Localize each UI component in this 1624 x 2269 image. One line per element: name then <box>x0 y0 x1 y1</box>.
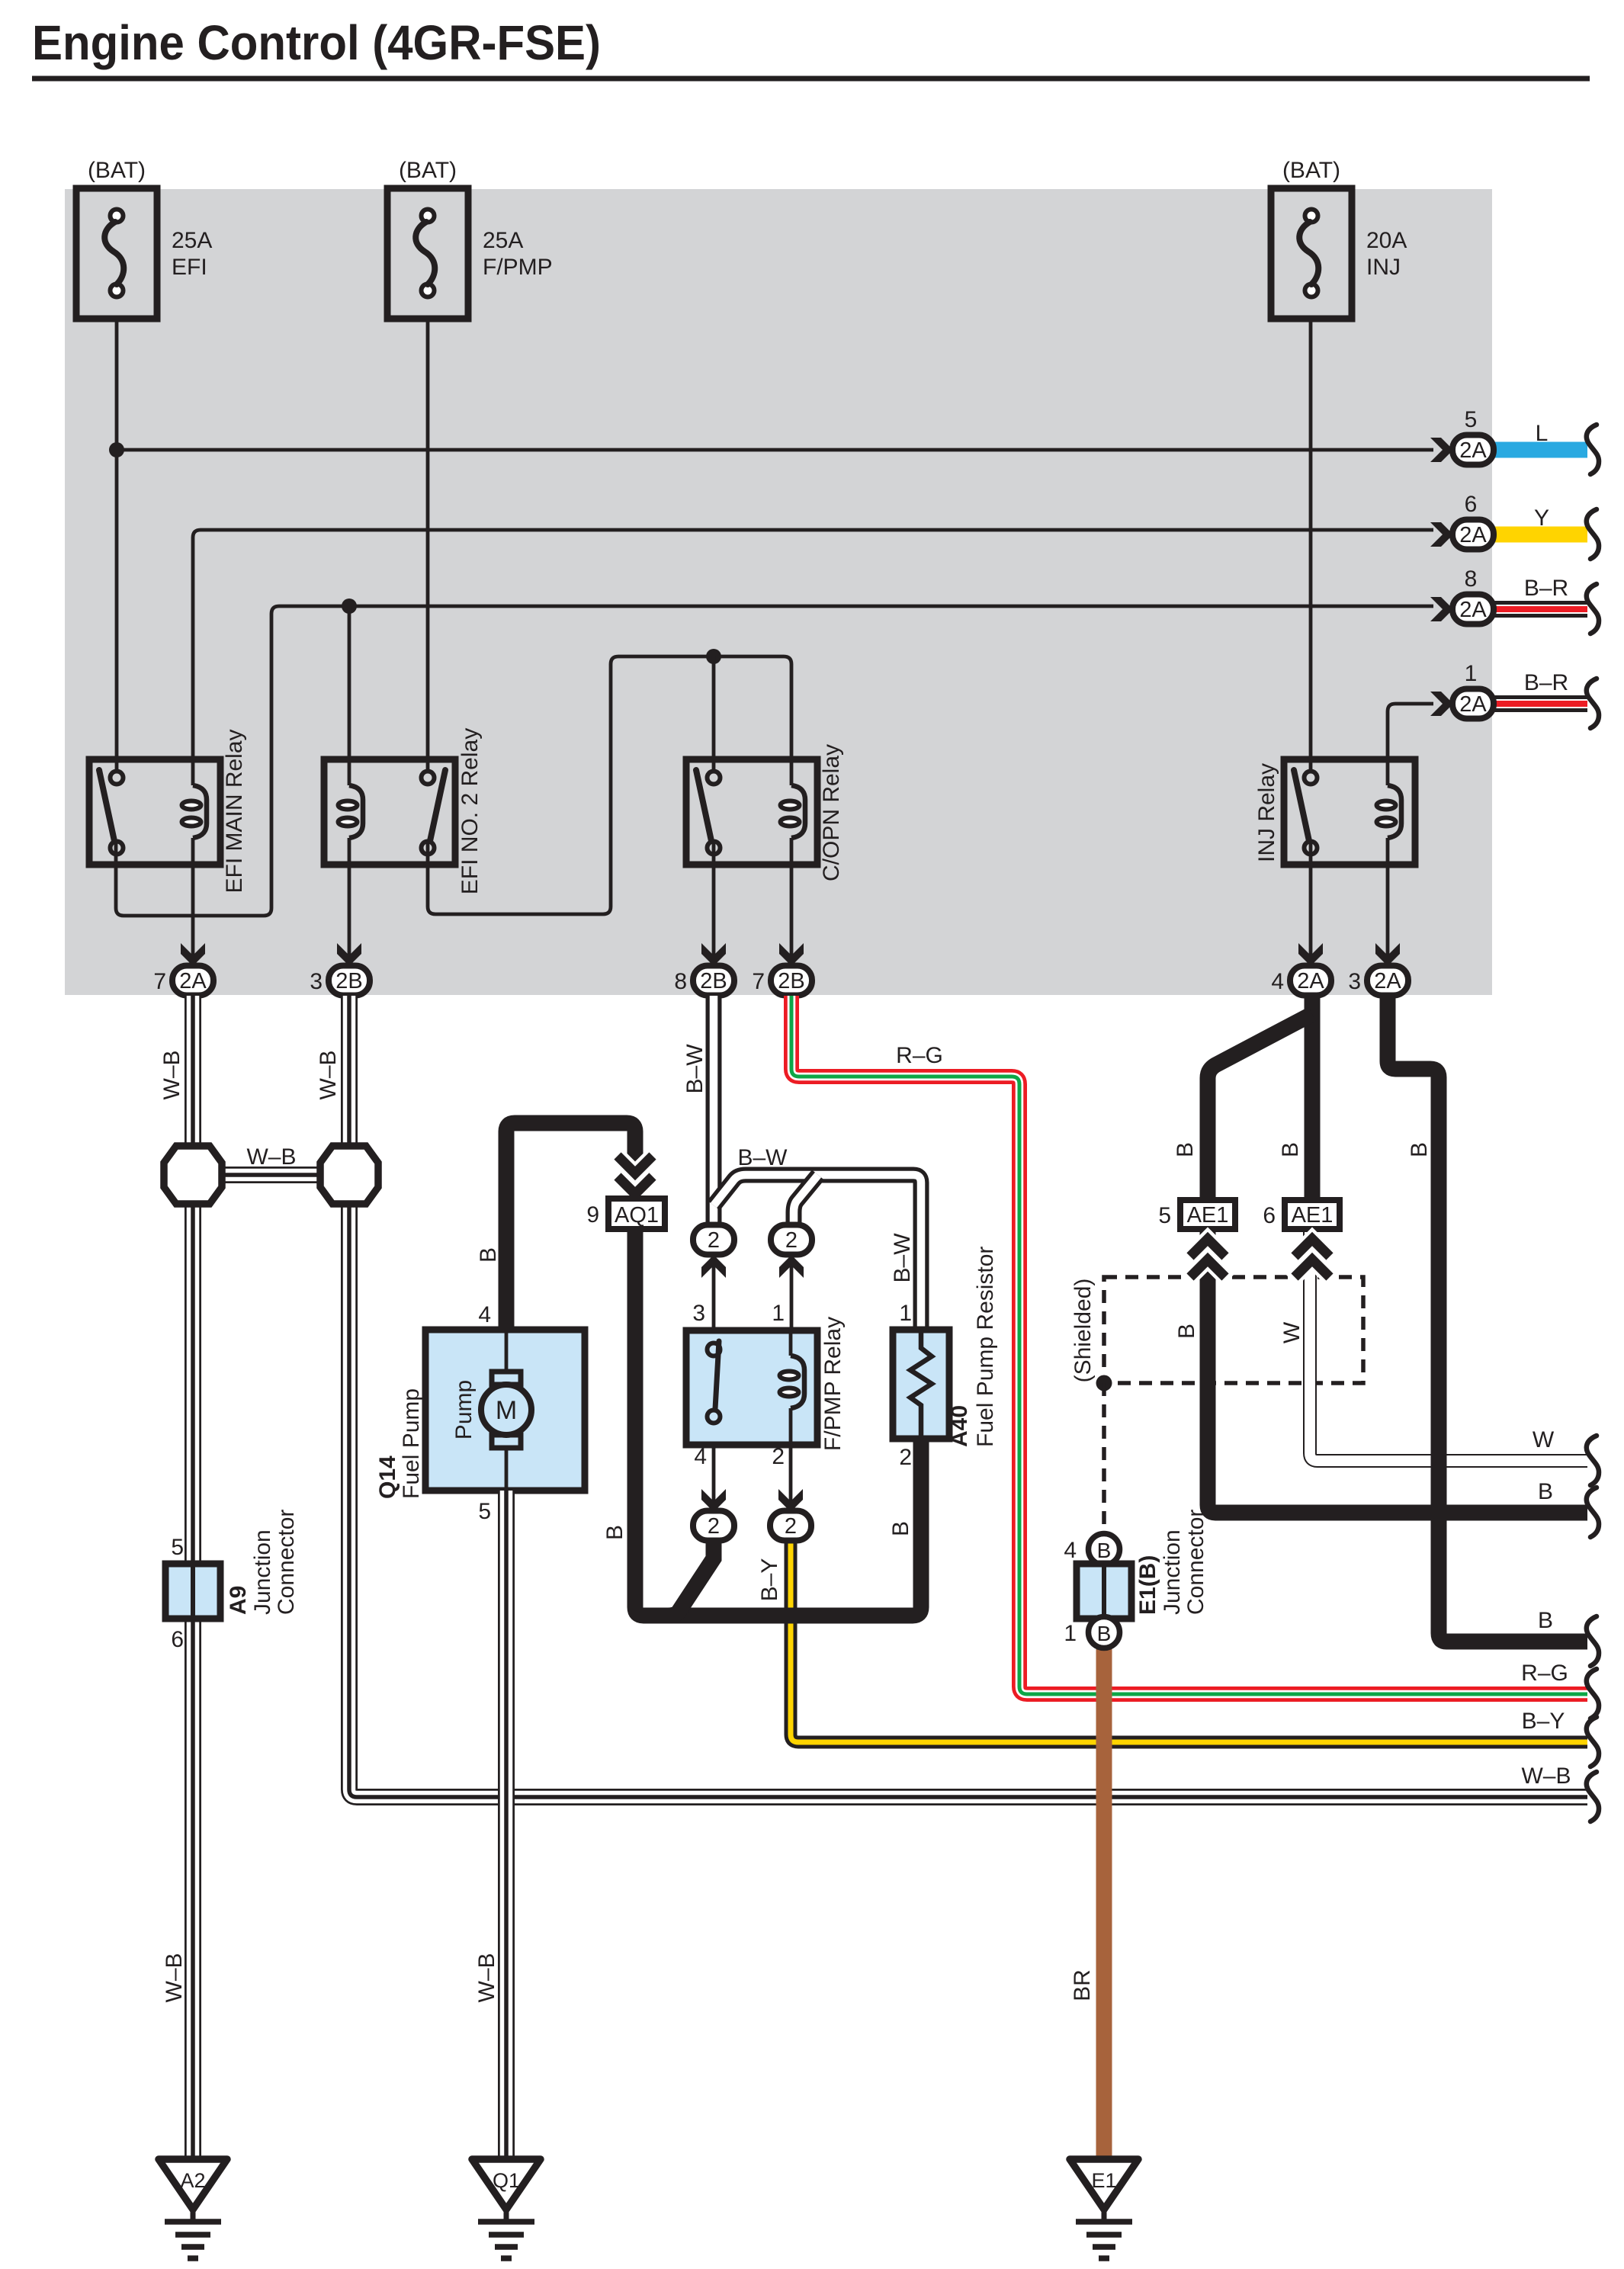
wire B from connector 5-AE1 to right edge <box>1174 1228 1599 1537</box>
wire B-W branch to F/PMP relay pin 1 and fuel pump resistor <box>714 1145 921 1331</box>
svg-text:INJ Relay: INJ Relay <box>1254 763 1279 862</box>
svg-text:B: B <box>1538 1479 1553 1504</box>
svg-text:Fuel Pump Resistor: Fuel Pump Resistor <box>973 1247 998 1447</box>
svg-text:8: 8 <box>1465 566 1478 592</box>
ground Q1 <box>472 2159 541 2258</box>
svg-text:F/PMP Relay: F/PMP Relay <box>820 1317 846 1451</box>
wire EFI NO.2 relay coil low side to connector 3-2B <box>348 838 351 964</box>
wire F/PMP relay pin1 connector to relay coil <box>790 1254 794 1356</box>
svg-text:7: 7 <box>752 969 765 994</box>
connector 8 2A <box>1430 566 1494 624</box>
svg-text:B: B <box>1097 1622 1112 1645</box>
svg-text:B: B <box>1278 1142 1303 1157</box>
wire row pin5 L from fuse EFI junction to connector 5-2A <box>117 448 1433 452</box>
svg-text:Connector: Connector <box>274 1510 299 1615</box>
svg-text:B–W: B–W <box>890 1233 915 1283</box>
relay C/OPN Relay <box>686 744 844 881</box>
svg-text:Pump: Pump <box>451 1380 477 1439</box>
connector 3 2B (gray box bottom) <box>310 943 370 996</box>
node junction fuse EFI / row 5 <box>109 442 124 457</box>
svg-text:Engine Control (4GR-FSE): Engine Control (4GR-FSE) <box>32 15 601 70</box>
wire F/PMP relay pin4 to connector <box>712 1412 716 1512</box>
connector oval 2 (F/PMP pin1 top) <box>771 1225 812 1279</box>
wire EFI NO.2 relay switch output to C/OPN relay top <box>428 656 791 914</box>
svg-text:B–R: B–R <box>1524 576 1568 601</box>
wire Y (yellow) to connector 6-2A stub <box>1494 505 1599 559</box>
wire L (blue) to connector 5-2A stub <box>1494 421 1599 474</box>
wire junction down to C/OPN relay switch <box>712 656 716 772</box>
wire fuse F/PMP to EFI NO.2 relay switch <box>426 319 430 772</box>
svg-text:B: B <box>1174 1324 1199 1339</box>
svg-text:B: B <box>602 1525 627 1540</box>
svg-text:5: 5 <box>478 1499 491 1524</box>
svg-text:B: B <box>888 1521 913 1536</box>
svg-text:3: 3 <box>310 969 323 994</box>
wire B-R to connector 8-2A stub <box>1494 576 1599 634</box>
svg-text:4: 4 <box>1271 969 1284 994</box>
svg-text:EFI MAIN Relay: EFI MAIN Relay <box>222 729 247 893</box>
svg-text:W–B: W–B <box>246 1144 296 1170</box>
svg-text:W: W <box>1279 1321 1305 1343</box>
wire W-B from connector 7-2A to ground A2 <box>159 996 193 2159</box>
relay EFI NO. 2 Relay <box>324 728 483 894</box>
ECU / junction block gray area <box>65 189 1492 995</box>
svg-text:R–G: R–G <box>896 1043 943 1068</box>
connector 7 2A (gray box bottom) <box>153 943 213 996</box>
wire INJ relay coil to connector 1-2A <box>1388 704 1433 785</box>
svg-text:2: 2 <box>708 1514 720 1539</box>
svg-text:E1(B): E1(B) <box>1135 1555 1160 1615</box>
connector 6 2A <box>1430 492 1494 550</box>
svg-text:1: 1 <box>1465 661 1478 686</box>
shield dashed box (Shielded) <box>1070 1277 1363 1383</box>
wire B fuel pump pin4 - AQ1 - F/PMP pin4 - fuel pump resistor pin2 <box>476 1123 921 1616</box>
wire row8 junction down to EFI NO.2 relay coil <box>348 606 351 785</box>
fuse 20A INJ <box>1271 158 1407 319</box>
svg-text:B: B <box>476 1247 501 1263</box>
wire EFI MAIN relay coil low side to connector 7-2A <box>191 838 195 964</box>
svg-text:Y: Y <box>1534 505 1549 531</box>
wire C/OPN relay coil low side to connector 7-2B <box>790 838 794 964</box>
connector 5 2A <box>1430 407 1494 465</box>
svg-text:Fuel Pump: Fuel Pump <box>399 1388 424 1499</box>
wire B from connector 3-2A to right edge <box>1388 996 1599 1666</box>
svg-text:4: 4 <box>694 1444 707 1469</box>
svg-text:2B: 2B <box>700 969 727 993</box>
connector oval 2 (F/PMP pin4 bottom) <box>693 1489 734 1541</box>
svg-text:8: 8 <box>674 969 687 994</box>
svg-text:4: 4 <box>1064 1538 1077 1563</box>
svg-text:B–Y: B–Y <box>1522 1709 1565 1734</box>
splice octagon left <box>164 1146 222 1204</box>
component Q14 Fuel Pump <box>375 1302 585 1524</box>
svg-text:B: B <box>1538 1608 1553 1633</box>
svg-text:Junction: Junction <box>1160 1529 1185 1615</box>
svg-text:2A: 2A <box>1374 969 1401 993</box>
svg-text:B: B <box>1407 1142 1432 1157</box>
svg-text:(BAT): (BAT) <box>399 158 457 183</box>
svg-text:Junction: Junction <box>250 1529 275 1615</box>
svg-text:BR: BR <box>1070 1969 1095 2001</box>
wire INJ relay switch output to connector 4-2A <box>1309 842 1313 964</box>
wire B from connector 4-2A to AE1 connectors <box>1173 996 1312 1201</box>
svg-text:E1: E1 <box>1091 2169 1116 2192</box>
ground A2 <box>159 2159 227 2258</box>
connector 8 2B (gray box bottom) <box>674 943 734 996</box>
svg-text:M: M <box>496 1396 517 1425</box>
svg-text:B–Y: B–Y <box>757 1558 782 1602</box>
svg-text:AE1: AE1 <box>1292 1203 1334 1228</box>
svg-text:1: 1 <box>772 1301 785 1326</box>
wire W-B splice bridge between octagon splices <box>213 1144 328 1175</box>
connector 5 AE1 <box>1158 1200 1235 1280</box>
wire C/OPN relay switch output to connector 8-2B <box>712 842 716 964</box>
connector oval 2 (F/PMP pin3 top) <box>693 1225 734 1279</box>
svg-text:20A: 20A <box>1366 228 1407 253</box>
svg-text:B: B <box>1097 1539 1112 1562</box>
wire EFI MAIN relay switch output to row 8 net <box>116 606 1433 916</box>
wire BR from E1(B) to ground E1 <box>1070 1647 1104 2162</box>
relay EFI MAIN Relay <box>89 729 247 893</box>
svg-text:B–R: B–R <box>1524 670 1568 695</box>
junction connector E1(B) <box>1064 1510 1208 1648</box>
svg-text:7: 7 <box>153 969 166 994</box>
fuse 25A EFI <box>76 158 212 319</box>
connector 4 2A (gray box bottom) <box>1271 943 1331 996</box>
connector oval 2 (F/PMP pin2 bottom) <box>770 1489 811 1541</box>
svg-text:W–B: W–B <box>316 1050 341 1099</box>
connector 9 AQ1 <box>586 1153 665 1229</box>
svg-text:1: 1 <box>899 1301 912 1326</box>
svg-text:3: 3 <box>1348 969 1361 994</box>
svg-text:(BAT): (BAT) <box>1282 158 1340 183</box>
wire W-B fuel pump pin5 to ground Q1 <box>474 1491 506 2159</box>
svg-text:5: 5 <box>1158 1203 1171 1228</box>
wire B-Y from F/PMP relay pin 2 to right edge <box>757 1540 1599 1767</box>
svg-text:A9: A9 <box>226 1586 251 1615</box>
wire R-G from connector 7-2B to right edge <box>791 996 1599 1719</box>
svg-text:AQ1: AQ1 <box>615 1203 659 1228</box>
svg-text:INJ: INJ <box>1366 255 1401 280</box>
svg-text:W–B: W–B <box>159 1050 185 1099</box>
component A40 Fuel Pump Resistor <box>893 1247 998 1470</box>
svg-text:3: 3 <box>692 1301 705 1326</box>
wire B-R to connector 1-2A stub <box>1494 670 1599 728</box>
svg-text:25A: 25A <box>483 228 523 253</box>
svg-text:25A: 25A <box>172 228 212 253</box>
svg-text:1: 1 <box>1064 1621 1077 1646</box>
node junction C/OPN switch feed <box>706 649 721 664</box>
svg-text:(Shielded): (Shielded) <box>1070 1279 1096 1383</box>
connector 1 2A <box>1430 661 1494 719</box>
connector 7 2B (gray box bottom) <box>752 943 812 996</box>
svg-text:2A: 2A <box>1459 438 1487 463</box>
svg-text:F/PMP: F/PMP <box>483 255 553 280</box>
svg-text:EFI NO. 2 Relay: EFI NO. 2 Relay <box>457 728 483 894</box>
relay INJ Relay <box>1254 759 1415 865</box>
svg-text:2: 2 <box>785 1514 797 1539</box>
svg-text:B: B <box>1173 1142 1198 1157</box>
node junction row8 / EFI NO.2 coil <box>342 599 357 614</box>
svg-text:A2: A2 <box>180 2169 205 2192</box>
svg-text:2: 2 <box>708 1228 720 1253</box>
wire W-B from connector 3-2B to right edge <box>316 996 1599 1821</box>
svg-text:2A: 2A <box>1459 692 1487 717</box>
svg-text:2: 2 <box>772 1444 785 1469</box>
svg-text:EFI: EFI <box>172 255 207 280</box>
svg-text:A40: A40 <box>947 1405 972 1447</box>
svg-text:AE1: AE1 <box>1187 1203 1229 1228</box>
wire W from connector 6-AE1 to right edge <box>1279 1228 1599 1485</box>
svg-text:2B: 2B <box>335 969 362 993</box>
wire EFI MAIN relay coil to connector 6-2A (MREL row) <box>193 530 1433 785</box>
fuse 25A F/PMP <box>387 158 553 319</box>
title underline <box>32 76 1590 82</box>
svg-text:5: 5 <box>1465 407 1478 432</box>
svg-text:Q14: Q14 <box>375 1455 400 1499</box>
svg-text:5: 5 <box>171 1535 184 1560</box>
svg-text:6: 6 <box>171 1627 184 1652</box>
svg-text:2A: 2A <box>1459 598 1487 622</box>
wire F/PMP relay pin2 to connector <box>789 1408 793 1512</box>
svg-text:(BAT): (BAT) <box>88 158 146 183</box>
svg-text:Q1: Q1 <box>493 2169 520 2192</box>
wire fuse INJ to INJ relay switch <box>1309 319 1313 772</box>
svg-text:2B: 2B <box>778 969 804 993</box>
svg-text:2A: 2A <box>1459 523 1487 547</box>
svg-text:B–W: B–W <box>737 1145 788 1170</box>
svg-text:6: 6 <box>1465 492 1478 517</box>
svg-text:2: 2 <box>785 1228 798 1253</box>
svg-text:2: 2 <box>899 1445 912 1470</box>
junction connector A9 <box>165 1510 299 1652</box>
svg-text:R–G: R–G <box>1521 1661 1568 1686</box>
ground E1 <box>1070 2159 1138 2258</box>
svg-text:W–B: W–B <box>474 1953 499 2002</box>
wire F/PMP relay pin3 connector to relay <box>712 1254 716 1343</box>
wire B-W from connector 8-2B to F/PMP relay pin 3 <box>682 996 714 1224</box>
connector 6 AE1 <box>1263 1200 1340 1280</box>
wire INJ relay coil low side to connector 3-2A <box>1386 838 1390 964</box>
svg-text:W: W <box>1533 1427 1555 1452</box>
wire fuse EFI to EFI MAIN relay switch <box>115 319 119 772</box>
svg-text:4: 4 <box>478 1302 491 1327</box>
relay F/PMP Relay <box>686 1301 846 1469</box>
splice octagon right <box>320 1146 378 1204</box>
svg-text:2A: 2A <box>1297 969 1324 993</box>
svg-text:W–B: W–B <box>162 1953 187 2002</box>
svg-text:2A: 2A <box>179 969 207 993</box>
svg-text:L: L <box>1536 421 1549 446</box>
title <box>32 15 601 70</box>
connector 3 2A (gray box bottom) <box>1348 943 1408 996</box>
svg-text:C/OPN Relay: C/OPN Relay <box>819 744 844 881</box>
svg-text:6: 6 <box>1263 1203 1276 1228</box>
shield drain node and dashed drop to E1(B) <box>1096 1375 1112 1535</box>
svg-text:B–W: B–W <box>682 1044 708 1094</box>
svg-text:9: 9 <box>586 1202 599 1228</box>
svg-text:W–B: W–B <box>1521 1764 1571 1789</box>
svg-text:Connector: Connector <box>1183 1510 1208 1615</box>
